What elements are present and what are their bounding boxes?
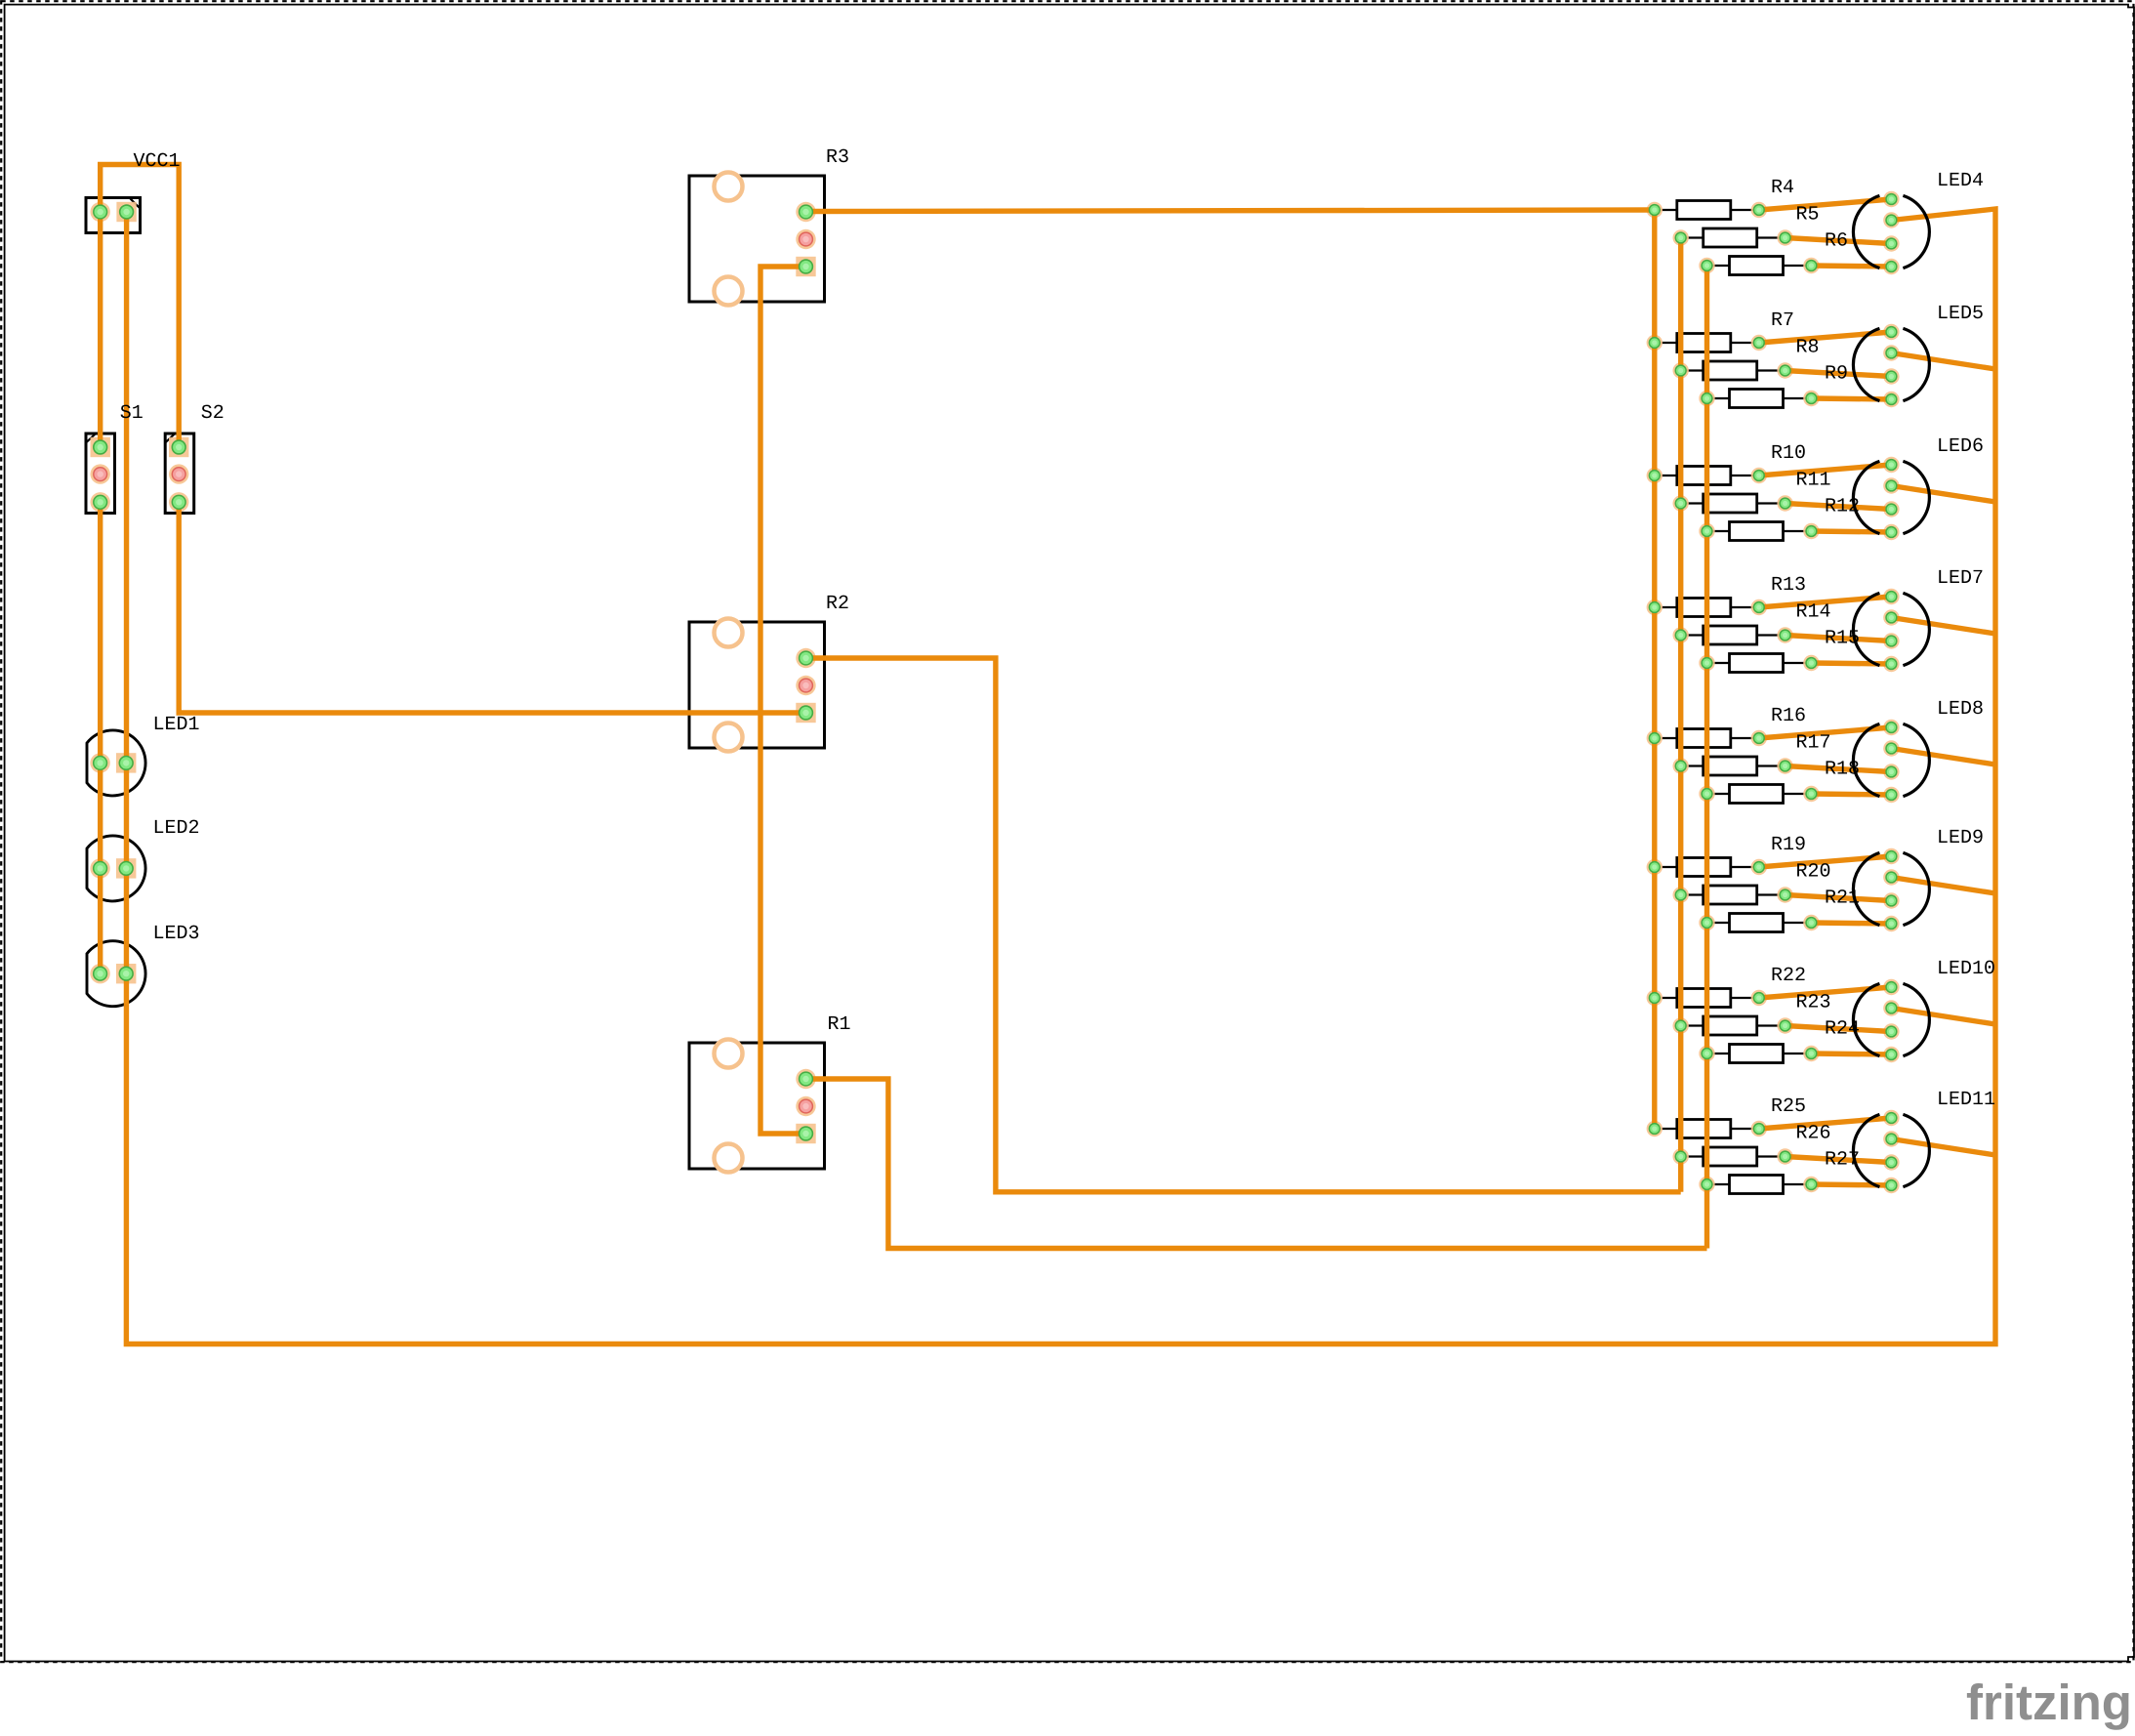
wire LED5 pin2 to right bus xyxy=(1891,353,1995,370)
resistor R20 left pad xyxy=(1675,889,1686,900)
resistor R4 left pad xyxy=(1649,205,1660,216)
resistor R23 left pad xyxy=(1675,1020,1686,1031)
label R24 xyxy=(1825,1018,1860,1041)
svg-text:R15: R15 xyxy=(1825,628,1860,650)
LED9 pin pads xyxy=(1886,851,1897,930)
S1 pin1 pad xyxy=(94,440,107,454)
resistor R20 right pad xyxy=(1780,889,1790,900)
label LED10 xyxy=(1937,958,1995,980)
LED LED4 outline xyxy=(1853,195,1929,268)
label R23 xyxy=(1796,992,1831,1014)
svg-text:LED5: LED5 xyxy=(1937,303,1984,325)
resistor R8 right pad xyxy=(1780,365,1790,376)
svg-text:R12: R12 xyxy=(1825,496,1860,518)
wire R12 to LED6 pin4 xyxy=(1811,531,1891,532)
svg-text:R16: R16 xyxy=(1771,705,1806,727)
wire R6 to LED4 pin4 xyxy=(1811,266,1891,267)
resistor R18 right pad xyxy=(1806,789,1817,800)
svg-text:R23: R23 xyxy=(1796,992,1831,1014)
wire R19 to LED9 pin1 xyxy=(1759,856,1892,867)
wire R20 to LED9 pin3 xyxy=(1786,895,1892,901)
wire R22 to LED10 pin1 xyxy=(1759,987,1892,998)
LED2 anode pad xyxy=(94,862,107,876)
LED7 pin pads xyxy=(1886,592,1897,670)
svg-text:R20: R20 xyxy=(1796,861,1831,884)
LED LED2 outline xyxy=(87,836,145,901)
resistor R27 left pad xyxy=(1702,1179,1712,1190)
label R19 xyxy=(1771,834,1806,856)
svg-text:LED1: LED1 xyxy=(153,714,200,736)
resistor R13 body xyxy=(1655,599,1759,617)
LED2 cathode pad xyxy=(119,862,133,876)
resistor R27 body xyxy=(1707,1176,1812,1194)
wire resistor bus 2 vertical xyxy=(1678,238,1683,1192)
resistor R25 left pad xyxy=(1649,1124,1660,1135)
LED LED3 outline xyxy=(87,941,145,1007)
wire R4 to LED4 pin1 xyxy=(1759,199,1892,210)
wire R13 to LED7 pin1 xyxy=(1759,597,1892,607)
svg-text:R18: R18 xyxy=(1825,759,1860,781)
LED LED1 outline xyxy=(87,730,145,796)
svg-text:LED9: LED9 xyxy=(1937,827,1984,849)
wire LED9 pin2 to right bus xyxy=(1891,878,1995,894)
S1 pin3 pad xyxy=(94,495,107,509)
resistor R25 body xyxy=(1655,1120,1759,1138)
resistor R5 right pad xyxy=(1780,232,1790,243)
S2 pin1 pad xyxy=(172,440,185,454)
label R7 xyxy=(1771,310,1794,332)
potentiometer R2 outline xyxy=(689,619,825,752)
wire R24 to LED10 pin4 xyxy=(1811,1054,1891,1054)
resistor R17 body xyxy=(1681,757,1786,775)
resistor R20 body xyxy=(1681,886,1786,904)
resistor R8 body xyxy=(1681,361,1786,380)
label R12 xyxy=(1825,496,1860,518)
svg-text:R27: R27 xyxy=(1825,1149,1860,1172)
R1 pin3 pad xyxy=(800,1127,813,1140)
label S2 xyxy=(201,402,225,425)
label LED9 xyxy=(1937,827,1984,849)
label LED1 xyxy=(153,714,200,736)
wire R18 to LED8 pin4 xyxy=(1811,794,1891,795)
svg-text:R6: R6 xyxy=(1825,230,1848,253)
wire LED7 pin2 to right bus xyxy=(1891,618,1995,635)
resistor R6 right pad xyxy=(1806,261,1817,271)
resistor R13 left pad xyxy=(1649,602,1660,613)
LED1 cathode pad xyxy=(119,757,133,770)
resistor R24 body xyxy=(1707,1045,1812,1063)
resistor R16 right pad xyxy=(1753,733,1764,744)
label R6 xyxy=(1825,230,1848,253)
svg-text:R5: R5 xyxy=(1796,204,1820,227)
resistor R7 right pad xyxy=(1753,338,1764,349)
label R18 xyxy=(1825,759,1860,781)
resistor R12 left pad xyxy=(1702,526,1712,537)
resistor R5 body xyxy=(1681,228,1786,247)
R3 pin2 pad xyxy=(800,232,813,246)
resistor R14 left pad xyxy=(1675,630,1686,641)
svg-text:S1: S1 xyxy=(120,402,144,425)
R3 pin1 pad xyxy=(800,205,813,219)
resistor R21 left pad xyxy=(1702,918,1712,929)
potentiometer R1 outline xyxy=(689,1040,825,1173)
svg-text:R10: R10 xyxy=(1771,442,1806,465)
wire R2 pin1 right-down to resistor bus 2 xyxy=(806,658,1681,1192)
resistor R17 right pad xyxy=(1780,761,1790,771)
VCC1 pin2 pad xyxy=(120,205,134,219)
resistor R4 right pad xyxy=(1753,205,1764,216)
label VCC1 xyxy=(134,150,181,173)
label R21 xyxy=(1825,888,1860,910)
resistor R4 body xyxy=(1655,201,1759,220)
label R5 xyxy=(1796,204,1820,227)
wire R8 to LED5 pin3 xyxy=(1786,371,1892,377)
LED5 pin pads xyxy=(1886,327,1897,405)
label R16 xyxy=(1771,705,1806,727)
wire R7 to LED5 pin1 xyxy=(1759,332,1892,343)
svg-text:LED4: LED4 xyxy=(1937,170,1984,192)
resistor R7 left pad xyxy=(1649,338,1660,349)
resistor R9 left pad xyxy=(1702,393,1712,404)
resistor R11 body xyxy=(1681,494,1786,513)
resistor R19 right pad xyxy=(1753,862,1764,873)
label R2 xyxy=(826,593,849,615)
label R20 xyxy=(1796,861,1831,884)
label R26 xyxy=(1796,1123,1831,1145)
wire R3 pin1 right to resistor bus 1 xyxy=(806,210,1655,212)
svg-text:LED10: LED10 xyxy=(1937,958,1995,980)
svg-text:R19: R19 xyxy=(1771,834,1806,856)
resistor R27 right pad xyxy=(1806,1179,1817,1190)
LED LED5 outline xyxy=(1853,328,1929,400)
wire S1 pin3 down through LED1 LED2 to LED3 anode xyxy=(98,502,103,973)
resistor R18 left pad xyxy=(1702,789,1712,800)
label R15 xyxy=(1825,628,1860,650)
R1 pin1 pad xyxy=(800,1072,813,1086)
resistor R9 body xyxy=(1707,390,1812,408)
LED3 anode pad xyxy=(94,967,107,980)
wire R27 to LED11 pin4 xyxy=(1811,1184,1891,1185)
svg-text:R9: R9 xyxy=(1825,363,1848,386)
label R4 xyxy=(1771,177,1794,199)
svg-text:LED3: LED3 xyxy=(153,923,200,945)
LED10 pin pads xyxy=(1886,982,1897,1060)
wire R1 pin1 right-down to resistor bus 3 xyxy=(809,1079,1707,1249)
LED LED6 outline xyxy=(1853,461,1929,533)
wire LED10 pin2 to right bus xyxy=(1891,1009,1995,1025)
R2 pin3 pad xyxy=(800,706,813,720)
wire S2 pin3 down-right to R2 wiper xyxy=(179,502,805,713)
svg-text:R8: R8 xyxy=(1796,337,1820,359)
label R3 xyxy=(826,146,849,169)
label LED4 xyxy=(1937,170,1984,192)
wire R21 to LED9 pin4 xyxy=(1811,923,1891,924)
svg-text:VCC1: VCC1 xyxy=(134,150,181,173)
resistor R21 body xyxy=(1707,914,1812,932)
label LED8 xyxy=(1937,698,1984,721)
resistor R16 body xyxy=(1655,729,1759,748)
label S1 xyxy=(120,402,144,425)
wire R14 to LED7 pin3 xyxy=(1786,636,1892,641)
R1 pin2 pad xyxy=(800,1099,813,1113)
wire R15 to LED7 pin4 xyxy=(1811,663,1891,664)
svg-text:R2: R2 xyxy=(826,593,849,615)
resistor R6 body xyxy=(1707,257,1812,275)
LED6 pin pads xyxy=(1886,460,1897,538)
resistor R14 body xyxy=(1681,626,1786,644)
svg-text:R11: R11 xyxy=(1796,470,1831,492)
svg-text:R13: R13 xyxy=(1771,574,1806,597)
label R25 xyxy=(1771,1095,1806,1118)
resistor R22 body xyxy=(1655,989,1759,1008)
resistor R12 body xyxy=(1707,522,1812,541)
resistor R15 body xyxy=(1707,654,1812,673)
resistor R10 body xyxy=(1655,467,1759,485)
resistor R18 body xyxy=(1707,785,1812,804)
svg-text:R21: R21 xyxy=(1825,888,1860,910)
svg-text:R24: R24 xyxy=(1825,1018,1860,1041)
label R11 xyxy=(1796,470,1831,492)
svg-text:R22: R22 xyxy=(1771,965,1806,987)
resistor R26 right pad xyxy=(1780,1151,1790,1162)
svg-text:S2: S2 xyxy=(201,402,225,425)
svg-text:R7: R7 xyxy=(1771,310,1794,332)
resistor R14 right pad xyxy=(1780,630,1790,641)
resistor R21 right pad xyxy=(1806,918,1817,929)
LED4 pin pads xyxy=(1886,194,1897,272)
wire VCC1 pin1 up-over to S2 pin1 xyxy=(101,165,180,448)
wire resistor bus 1 vertical xyxy=(1652,210,1657,1129)
resistor R26 body xyxy=(1681,1147,1786,1166)
label R27 xyxy=(1825,1149,1860,1172)
svg-text:LED11: LED11 xyxy=(1937,1089,1995,1111)
resistor R25 right pad xyxy=(1753,1124,1764,1135)
resistor R15 right pad xyxy=(1806,658,1817,669)
svg-text:LED8: LED8 xyxy=(1937,698,1984,721)
label LED7 xyxy=(1937,567,1984,590)
wire R16 to LED8 pin1 xyxy=(1759,727,1892,738)
resistor R19 left pad xyxy=(1649,862,1660,873)
resistor R7 body xyxy=(1655,334,1759,352)
label R8 xyxy=(1796,337,1820,359)
svg-text:R26: R26 xyxy=(1796,1123,1831,1145)
label LED3 xyxy=(153,923,200,945)
resistor R13 right pad xyxy=(1753,602,1764,613)
resistor R10 left pad xyxy=(1649,471,1660,481)
svg-text:LED6: LED6 xyxy=(1937,435,1984,458)
wire R9 to LED5 pin4 xyxy=(1811,398,1891,399)
resistor R23 right pad xyxy=(1780,1020,1790,1031)
resistor R23 body xyxy=(1681,1016,1786,1035)
svg-text:R14: R14 xyxy=(1796,601,1831,624)
resistor R5 left pad xyxy=(1675,232,1686,243)
LED LED7 outline xyxy=(1853,593,1929,665)
wire R26 to LED11 pin3 xyxy=(1786,1157,1892,1163)
VCC1 pin1 pad xyxy=(94,205,107,219)
wire R10 to LED6 pin1 xyxy=(1759,465,1892,475)
R2 pin2 pad xyxy=(800,679,813,692)
label R10 xyxy=(1771,442,1806,465)
resistor R10 right pad xyxy=(1753,471,1764,481)
LED11 pin pads xyxy=(1886,1113,1897,1191)
LED LED11 outline xyxy=(1853,1114,1929,1186)
wire net VCC - VCC1 pin2 down, bottom rail, right bus up to LED4 pin2 xyxy=(126,209,1995,1344)
resistor R26 left pad xyxy=(1675,1151,1686,1162)
wire R17 to LED8 pin3 xyxy=(1786,766,1892,772)
label LED5 xyxy=(1937,303,1984,325)
LED LED10 outline xyxy=(1853,983,1929,1055)
resistor R22 right pad xyxy=(1753,993,1764,1004)
resistor R11 right pad xyxy=(1780,498,1790,509)
wire R23 to LED10 pin3 xyxy=(1786,1026,1892,1032)
wire resistor bus 3 vertical xyxy=(1704,266,1709,1249)
wire LED11 pin2 to right bus xyxy=(1891,1139,1995,1156)
wire LED8 pin2 to right bus xyxy=(1891,749,1995,765)
svg-text:R4: R4 xyxy=(1771,177,1794,199)
svg-text:LED7: LED7 xyxy=(1937,567,1984,590)
label LED2 xyxy=(153,817,200,840)
pad copper halos xyxy=(90,191,1899,1193)
R2 pin1 pad xyxy=(800,651,813,665)
resistor R11 left pad xyxy=(1675,498,1686,509)
resistor R24 left pad xyxy=(1702,1049,1712,1059)
wire R3 wiper to R1 wiper xyxy=(760,267,806,1134)
LED8 pin pads xyxy=(1886,723,1897,801)
label R13 xyxy=(1771,574,1806,597)
wire R11 to LED6 pin3 xyxy=(1786,504,1892,510)
wire R25 to LED11 pin1 xyxy=(1759,1118,1892,1129)
potentiometer R3 outline xyxy=(689,173,825,306)
label R17 xyxy=(1796,732,1831,755)
R3 pin3 pad xyxy=(800,260,813,273)
label R14 xyxy=(1796,601,1831,624)
resistor R24 right pad xyxy=(1806,1049,1817,1059)
resistor R16 left pad xyxy=(1649,733,1660,744)
LED1 anode pad xyxy=(94,757,107,770)
resistor R15 left pad xyxy=(1702,658,1712,669)
LED LED8 outline xyxy=(1853,723,1929,796)
label LED6 xyxy=(1937,435,1984,458)
label R1 xyxy=(828,1013,851,1036)
S1 pin2 pad xyxy=(94,468,107,481)
resistor R12 right pad xyxy=(1806,526,1817,537)
switch S1 outline xyxy=(86,434,115,514)
connector VCC1 outline xyxy=(86,198,141,233)
fritzing logo xyxy=(1966,1674,2132,1730)
resistor R6 left pad xyxy=(1702,261,1712,271)
wire VCC1 pin1 down to S1 pin1 xyxy=(98,212,103,447)
label R9 xyxy=(1825,363,1848,386)
switch S2 outline xyxy=(165,434,194,514)
LED3 cathode pad xyxy=(119,967,133,980)
resistor R19 body xyxy=(1655,858,1759,877)
S2 pin3 pad xyxy=(172,495,185,509)
svg-text:R25: R25 xyxy=(1771,1095,1806,1118)
label R22 xyxy=(1771,965,1806,987)
resistor R22 left pad xyxy=(1649,993,1660,1004)
svg-text:fritzing: fritzing xyxy=(1966,1674,2132,1730)
svg-text:LED2: LED2 xyxy=(153,817,200,840)
svg-text:R17: R17 xyxy=(1796,732,1831,755)
resistor R9 right pad xyxy=(1806,393,1817,404)
label LED11 xyxy=(1937,1089,1995,1111)
LED LED9 outline xyxy=(1853,852,1929,925)
resistor R17 left pad xyxy=(1675,761,1686,771)
wire R5 to LED4 pin3 xyxy=(1786,238,1892,244)
svg-text:R3: R3 xyxy=(826,146,849,169)
S2 pin2 pad xyxy=(172,468,185,481)
resistor R8 left pad xyxy=(1675,365,1686,376)
svg-text:R1: R1 xyxy=(828,1013,851,1036)
wire LED6 pin2 to right bus xyxy=(1891,486,1995,503)
